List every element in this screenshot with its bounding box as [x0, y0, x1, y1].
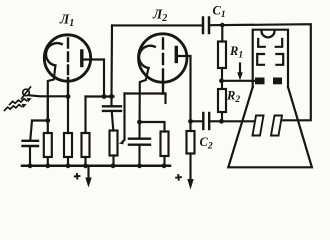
svg-text:Л1: Л1: [59, 12, 74, 30]
svg-text:C1: C1: [213, 4, 226, 21]
svg-text:C2: C2: [200, 135, 213, 152]
svg-text:R1: R1: [229, 44, 243, 61]
svg-text:Л2: Л2: [152, 7, 167, 25]
svg-text:R2: R2: [226, 89, 240, 106]
